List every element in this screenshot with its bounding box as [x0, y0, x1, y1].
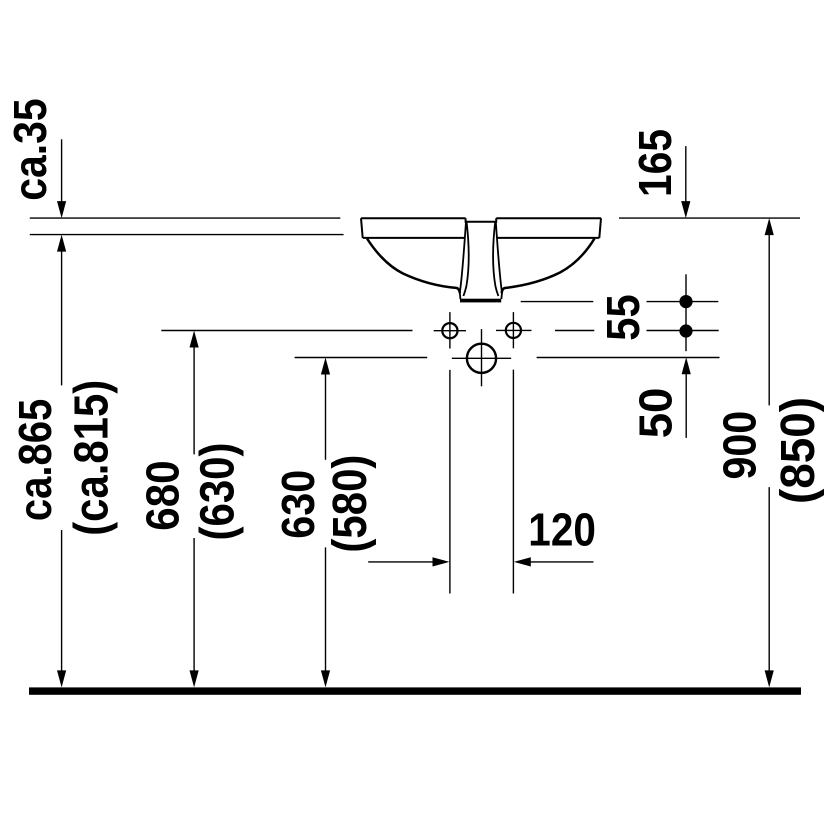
dimension 120 right arrow: [529, 561, 594, 563]
dimension ca.865 arrow up: [57, 235, 66, 252]
dimension 55 dot upper: [679, 295, 692, 308]
dimension 630 arrow up: [321, 358, 330, 375]
extension line from left hole down: [450, 370, 514, 594]
dimension 900 arrow up: [765, 218, 774, 235]
dimension 55 marker line: [685, 274, 687, 351]
basin outline: [361, 218, 601, 238]
faucet hole left circle: [442, 323, 457, 338]
faucet hole right circle: [506, 323, 521, 338]
wire counter underside line left: [30, 234, 344, 236]
svg-text:55: 55: [597, 294, 649, 340]
dimension 55 dot lower: [679, 324, 692, 337]
dimension 680 arrow up: [190, 331, 199, 348]
basin rim right edge: [599, 218, 601, 238]
dimension 120 left arrow: [368, 561, 434, 563]
dimension 630 line: [325, 373, 327, 672]
svg-text:(850): (850): [772, 397, 825, 504]
dimension 900 line: [768, 234, 770, 672]
basin bowl right curve: [502, 239, 595, 294]
drain circle: [467, 344, 496, 373]
faucet hole right crosshair: [496, 312, 532, 348]
dimension 900 arrow down at floor: [765, 670, 774, 687]
svg-text:630: 630: [272, 470, 324, 539]
drain centre line y=357.5: [295, 357, 720, 359]
basin rim underside: [363, 237, 600, 239]
drain crosshair: [452, 329, 511, 386]
faucet hole line y=301.6: [521, 301, 719, 303]
overflow column bottom bar: [460, 299, 501, 303]
basin bowl left curve: [367, 239, 595, 294]
svg-text:(630): (630): [191, 443, 244, 541]
dimension 165 line: [685, 146, 687, 202]
svg-text:(580): (580): [324, 455, 377, 553]
overflow column top: [466, 218, 497, 222]
overflow column left inner edge: [463, 222, 468, 296]
faucet hole left crosshair: [434, 312, 466, 348]
svg-text:900: 900: [714, 411, 766, 480]
hole centre line y=330.5: [161, 330, 718, 332]
dimension 50 arrow up: [682, 357, 691, 374]
basin rim left edge: [361, 218, 363, 238]
wire counter top line right: [619, 217, 800, 219]
dimension ca.35 arrow down: [57, 201, 66, 218]
basin rim top: [361, 217, 601, 219]
overflow column right outer edge: [496, 222, 502, 299]
dimension 165 arrow down: [681, 201, 690, 218]
svg-text:(ca.815): (ca.815): [65, 380, 118, 536]
dimension ca.35 extension line upper: [61, 139, 63, 202]
svg-text:ca.35: ca.35: [4, 98, 56, 201]
dimension 50 tail: [685, 373, 687, 438]
dimension ca.865 arrow down at floor: [57, 670, 66, 687]
floor line: [29, 687, 801, 694]
svg-text:680: 680: [137, 460, 189, 530]
svg-text:50: 50: [630, 388, 682, 439]
svg-text:ca.865: ca.865: [9, 399, 61, 521]
dimension 680 line: [193, 346, 195, 672]
svg-text:120: 120: [528, 504, 596, 556]
dimension 630 arrow down at floor: [321, 670, 330, 687]
svg-text:165: 165: [629, 129, 681, 197]
overflow column right inner edge: [493, 222, 498, 296]
dimension ca.865 line: [61, 250, 63, 672]
wire counter top line left: [30, 217, 341, 219]
overflow column left outer edge: [460, 222, 502, 299]
dimension 680 arrow down at floor: [190, 670, 199, 687]
